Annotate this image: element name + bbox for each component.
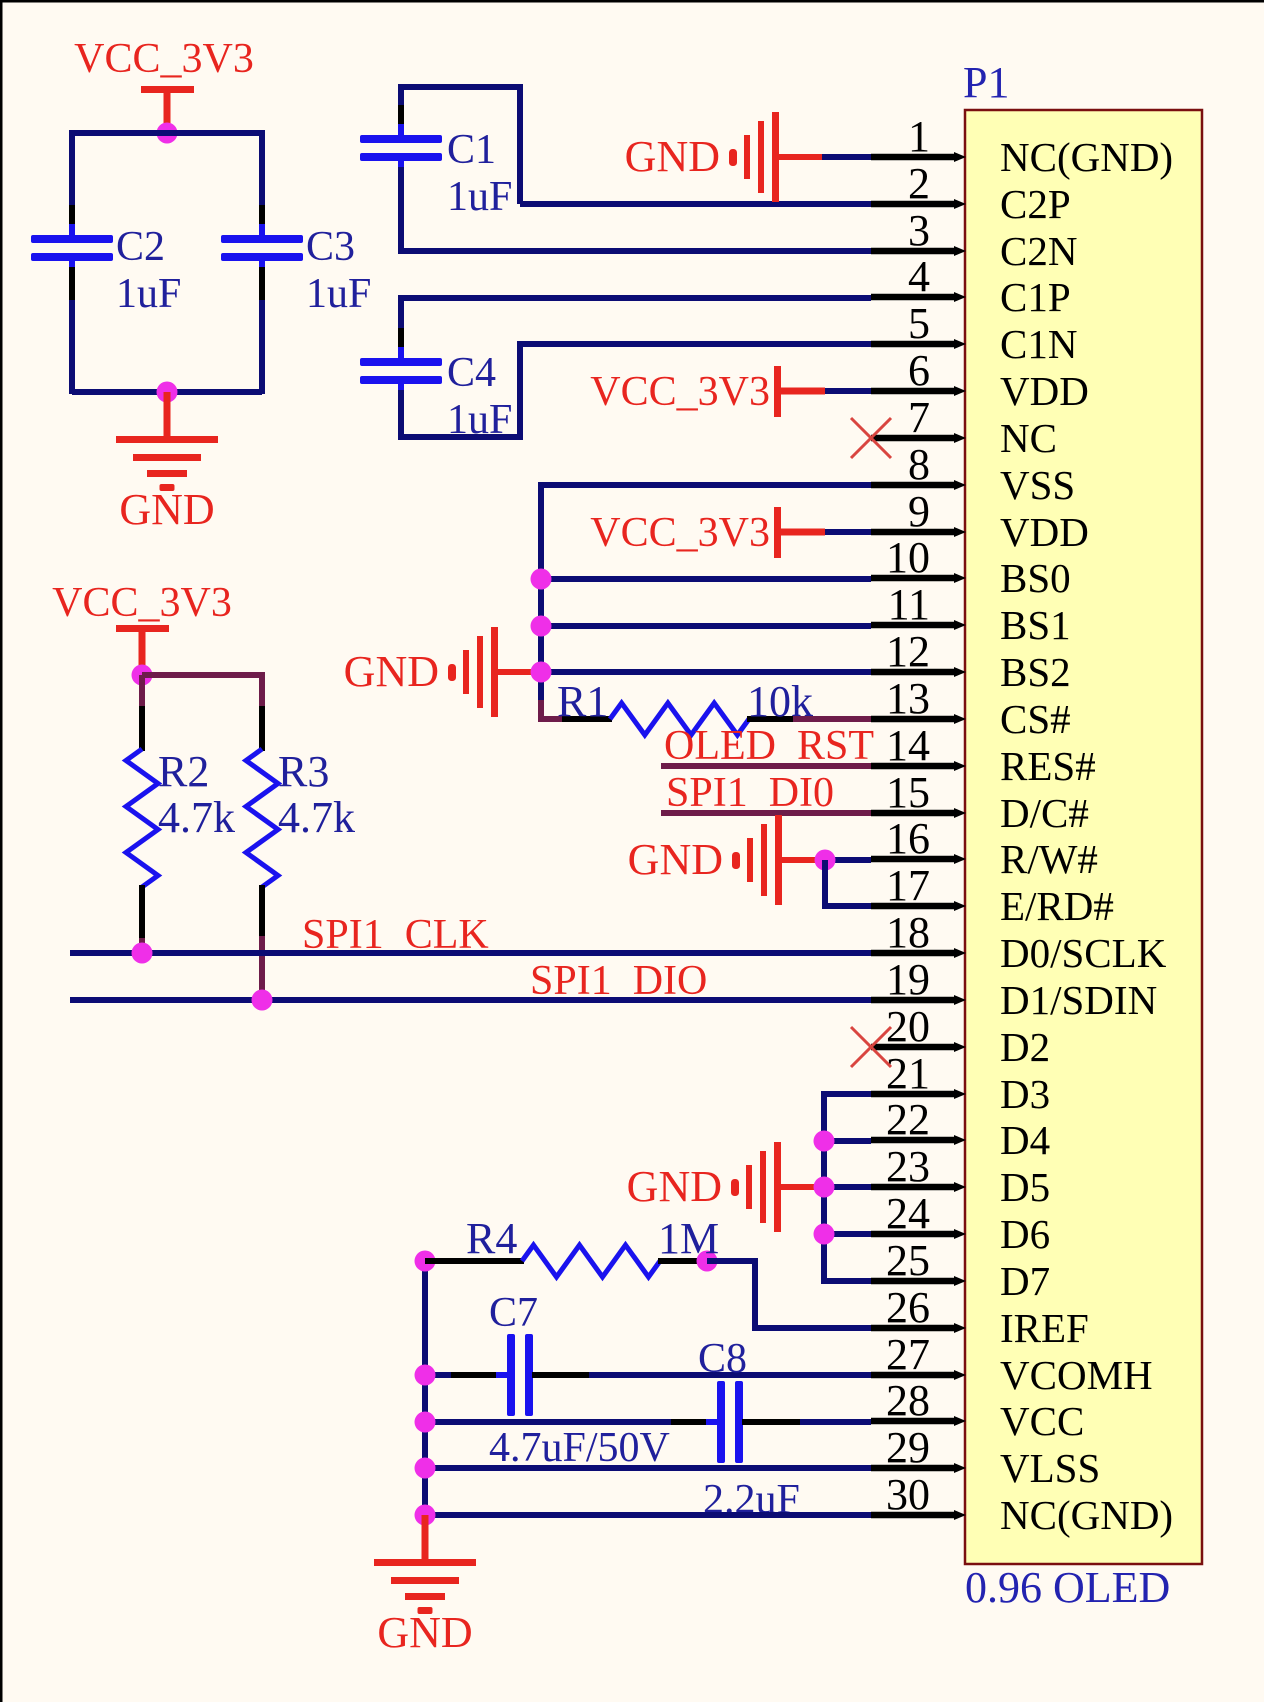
capacitor C1 lead upper: [398, 105, 404, 129]
svg-text:22: 22: [886, 1095, 930, 1144]
pin 22 stub: [871, 1135, 966, 1145]
junction R2 to SCLK: [132, 943, 153, 964]
svg-text:GND: GND: [627, 1162, 722, 1211]
resistor R1 lead left: [562, 716, 612, 722]
svg-text:IREF: IREF: [1000, 1305, 1089, 1351]
junction pin 22 bus: [814, 1131, 835, 1152]
svg-text:30: 30: [886, 1470, 930, 1519]
svg-text:C7: C7: [489, 1290, 538, 1336]
capacitor C7 lead left: [451, 1372, 508, 1378]
junction VCC to R2/R3: [132, 665, 153, 686]
pin 30 stub: [871, 1510, 966, 1520]
svg-text:18: 18: [886, 908, 930, 957]
svg-text:D3: D3: [1000, 1071, 1050, 1117]
svg-text:15: 15: [886, 768, 930, 817]
svg-text:C2N: C2N: [1000, 228, 1077, 274]
svg-text:16: 16: [886, 814, 930, 863]
svg-text:CS#: CS#: [1000, 696, 1071, 742]
pin 27 stub: [871, 1370, 966, 1380]
wire C1 top bracket: [401, 87, 520, 204]
wire pin 19 D1/SDIN: [70, 997, 871, 1003]
svg-text:NC: NC: [1000, 415, 1057, 461]
svg-text:VSS: VSS: [1000, 462, 1075, 508]
svg-text:D1/SDIN: D1/SDIN: [1000, 977, 1157, 1023]
pin 12 stub: [871, 667, 966, 677]
wire R2 top stub (maroon): [139, 675, 145, 708]
wire pin 28 VCC right: [800, 1419, 871, 1425]
pin 4 stub: [871, 292, 966, 302]
capacitor C8 body: [706, 1381, 754, 1463]
svg-text:1uF: 1uF: [447, 174, 512, 220]
resistor R1 lead right: [747, 716, 795, 722]
pin 24 stub: [871, 1229, 966, 1239]
pin 16 stub: [871, 854, 966, 864]
ground (bottom): [374, 1515, 476, 1657]
svg-text:D6: D6: [1000, 1211, 1050, 1257]
svg-text:VDD: VDD: [1000, 509, 1089, 555]
svg-text:BS0: BS0: [1000, 555, 1071, 601]
capacitor C8 lead right: [742, 1419, 802, 1425]
junction R3 to SDIN: [252, 990, 273, 1011]
wire pin 27 VCOMH right: [589, 1372, 871, 1378]
pin 19 stub: [871, 995, 966, 1005]
capacitor C3 lead lower: [259, 267, 265, 300]
resistor R4 lead left: [425, 1258, 524, 1264]
svg-text:5: 5: [908, 299, 930, 348]
svg-text:23: 23: [886, 1142, 930, 1191]
svg-text:VCC_3V3: VCC_3V3: [52, 580, 232, 626]
pin 5 stub: [871, 339, 966, 349]
wire pin 28 VCC left: [425, 1419, 673, 1425]
svg-text:10k: 10k: [747, 677, 813, 726]
svg-text:4.7k: 4.7k: [278, 793, 355, 842]
resistor R2 lead upper: [139, 706, 145, 751]
svg-text:BS2: BS2: [1000, 649, 1071, 695]
svg-text:C8: C8: [698, 1336, 747, 1382]
svg-text:VDD: VDD: [1000, 368, 1089, 414]
junction pin 28 bus: [415, 1412, 436, 1433]
pin 6 stub: [871, 386, 966, 396]
svg-text:C4: C4: [447, 350, 496, 396]
pin 17 stub: [871, 901, 966, 911]
svg-text:BS1: BS1: [1000, 602, 1071, 648]
wire pin 9 VDD: [825, 529, 871, 535]
svg-text:24: 24: [886, 1189, 930, 1238]
junction (loop bottom to GND): [157, 382, 178, 403]
resistor R3: [246, 749, 278, 887]
svg-text:R3: R3: [278, 747, 329, 796]
svg-text:OLED RST: OLED RST: [664, 723, 874, 769]
pin 1 stub: [871, 152, 966, 162]
pin 20 stub: [871, 1042, 966, 1052]
svg-text:VCOMH: VCOMH: [1000, 1352, 1153, 1398]
ground (pin 1): [625, 112, 822, 202]
svg-text:GND: GND: [628, 835, 723, 884]
sheet border top: [0, 0, 1264, 3]
svg-text:4.7k: 4.7k: [158, 793, 235, 842]
ground (pins 21-25 bus): [627, 1142, 824, 1232]
svg-text:25: 25: [886, 1236, 930, 1285]
resistor R2: [126, 749, 158, 887]
svg-text:1M: 1M: [658, 1214, 719, 1263]
no-connect X (pin 7): [851, 418, 891, 458]
svg-text:R1: R1: [557, 677, 608, 726]
wire pins 21-25 vertical bus: [824, 1094, 871, 1281]
svg-text:4: 4: [908, 252, 930, 301]
svg-text:8: 8: [908, 440, 930, 489]
svg-text:21: 21: [886, 1049, 930, 1098]
wire C1 bottom to pin 3: [401, 167, 871, 251]
svg-text:RES#: RES#: [1000, 743, 1096, 789]
junction pin 11 bus: [531, 616, 552, 637]
power VCC_3V3 (top left): [74, 36, 254, 133]
svg-text:C1P: C1P: [1000, 274, 1071, 320]
svg-text:C1: C1: [447, 127, 496, 173]
wire pin 11 BS1: [541, 623, 871, 629]
svg-text:GND: GND: [377, 1608, 472, 1657]
capacitor C4 lead upper: [398, 328, 404, 352]
junction pin 29 bus: [415, 1458, 436, 1479]
svg-text:27: 27: [886, 1330, 930, 1379]
svg-text:SPI1 DI0: SPI1 DI0: [666, 770, 834, 816]
resistor R3 lead lower: [259, 885, 265, 938]
svg-text:C3: C3: [306, 224, 355, 270]
pin 29 stub: [871, 1463, 966, 1473]
pin 18 stub: [871, 948, 966, 958]
wire pin 1 NC(GND): [822, 154, 871, 160]
svg-text:11: 11: [888, 580, 930, 629]
wire C4 bottom bracket to pin 5: [401, 344, 871, 437]
svg-text:NC(GND): NC(GND): [1000, 1492, 1173, 1538]
pin 25 stub: [871, 1276, 966, 1286]
pin 10 stub: [871, 573, 966, 583]
wire C3 right vertical lower: [259, 300, 265, 394]
svg-text:R/W#: R/W#: [1000, 836, 1098, 882]
svg-text:17: 17: [886, 861, 930, 910]
capacitor C8 lead left: [671, 1419, 718, 1425]
capacitor C7 body: [496, 1334, 544, 1416]
wire pin 10 BS0: [541, 576, 871, 582]
junction pin 12 bus: [531, 662, 552, 683]
svg-text:1uF: 1uF: [116, 271, 181, 317]
pin 8 stub: [871, 480, 966, 490]
wire pin 12 BS2: [541, 669, 871, 675]
svg-text:SPI1 DIO: SPI1 DIO: [530, 958, 707, 1004]
svg-text:26: 26: [886, 1283, 930, 1332]
svg-text:P1: P1: [963, 58, 1009, 107]
junction pin 16: [815, 850, 836, 871]
wire pin 29 VLSS: [425, 1465, 871, 1471]
svg-text:19: 19: [886, 955, 930, 1004]
svg-text:10: 10: [886, 533, 930, 582]
svg-text:1: 1: [908, 112, 930, 161]
no-connect X (pin 20): [851, 1027, 891, 1067]
wire C4 top to pin 4: [401, 298, 871, 360]
wire pin 27 VCOMH left: [425, 1372, 453, 1378]
pin 23 stub: [871, 1182, 966, 1192]
svg-text:VCC_3V3: VCC_3V3: [590, 510, 770, 556]
power VCC_3V3 (pin 9): [590, 507, 825, 558]
junction pin 24 bus: [814, 1224, 835, 1245]
junction R4 left: [415, 1251, 436, 1272]
junction pin 23 bus: [814, 1177, 835, 1198]
ground (below C2/C3): [116, 392, 218, 534]
pin 2 stub: [871, 199, 966, 209]
svg-text:GND: GND: [344, 647, 439, 696]
svg-text:0.96 OLED: 0.96 OLED: [965, 1563, 1170, 1612]
wire pin 30 NC(GND): [425, 1512, 871, 1518]
capacitor C3 lead upper: [259, 205, 265, 229]
power VCC_3V3 (pin 6): [590, 366, 825, 417]
pin 28 stub: [871, 1416, 966, 1426]
svg-text:9: 9: [908, 487, 930, 536]
wire R1 to pin 13 CS# (maroon): [793, 716, 871, 722]
wire pin 22 D4: [824, 1138, 871, 1144]
svg-text:D/C#: D/C#: [1000, 790, 1089, 836]
wire pin 18 D0/SCLK: [70, 950, 871, 956]
svg-text:20: 20: [886, 1002, 930, 1051]
resistor R1: [610, 703, 749, 735]
capacitor C7 lead right: [532, 1372, 591, 1378]
svg-text:6: 6: [908, 346, 930, 395]
capacitor C2 lead upper: [69, 205, 75, 229]
pin 26 stub: [871, 1323, 966, 1333]
svg-text:14: 14: [886, 721, 930, 770]
wire C2 left vertical lower: [69, 300, 75, 394]
resistor R2 lead lower: [139, 885, 145, 940]
wire C2/C3 loop top: [72, 130, 262, 136]
svg-text:GND: GND: [625, 132, 720, 181]
power VCC_3V3 (R2/R3): [52, 580, 232, 675]
svg-text:28: 28: [886, 1376, 930, 1425]
junction pin 30 bus: [415, 1505, 436, 1526]
resistor R3 lead upper: [259, 706, 265, 751]
svg-text:7: 7: [908, 393, 930, 442]
wire pin 15 D/C# (maroon): [661, 810, 871, 816]
svg-text:D0/SCLK: D0/SCLK: [1000, 930, 1167, 976]
pin 9 stub: [871, 527, 966, 537]
svg-text:VCC_3V3: VCC_3V3: [590, 369, 770, 415]
svg-text:VCC: VCC: [1000, 1398, 1084, 1444]
svg-text:D7: D7: [1000, 1258, 1050, 1304]
svg-text:VCC_3V3: VCC_3V3: [74, 36, 254, 82]
wire pin 23 D5: [824, 1184, 871, 1190]
wire C2/C3 loop bottom: [72, 389, 262, 395]
svg-text:C1N: C1N: [1000, 321, 1077, 367]
wire R4 to pin 26 IREF: [707, 1261, 871, 1328]
svg-text:GND: GND: [119, 485, 214, 534]
svg-text:NC(GND): NC(GND): [1000, 134, 1173, 180]
resistor R4: [522, 1245, 660, 1277]
svg-text:1uF: 1uF: [306, 271, 371, 317]
svg-text:13: 13: [886, 674, 930, 723]
ground (pins 10-12 bus): [344, 627, 541, 717]
svg-text:C2P: C2P: [1000, 181, 1071, 227]
wire pin 14 RES# (maroon): [661, 763, 871, 769]
wire C2 left vertical upper: [69, 130, 75, 205]
pin 14 stub: [871, 761, 966, 771]
wire C3 right vertical upper: [259, 130, 265, 205]
wire R2/R3 top (maroon): [142, 675, 262, 708]
pin 13 stub: [871, 714, 966, 724]
wire pin 17 E/RD#: [825, 860, 871, 906]
resistor R4 lead right: [658, 1258, 707, 1264]
svg-text:4.7uF/50V: 4.7uF/50V: [489, 1425, 670, 1471]
wire pin 16 R/W#: [825, 857, 871, 863]
pin 21 stub: [871, 1089, 966, 1099]
svg-text:C2: C2: [116, 224, 165, 270]
capacitor C3 body: [221, 224, 303, 272]
svg-text:SPI1 CLK: SPI1 CLK: [302, 912, 489, 958]
sheet border left: [0, 0, 3, 1702]
capacitor C2 lead lower: [69, 267, 75, 300]
svg-text:VLSS: VLSS: [1000, 1445, 1100, 1491]
capacitor C1 body: [360, 124, 442, 172]
wire left vertical bus (C7/C8/GND): [422, 1261, 428, 1518]
junction R4 right: [697, 1251, 718, 1272]
svg-text:D4: D4: [1000, 1117, 1050, 1163]
pin 15 stub: [871, 808, 966, 818]
svg-text:29: 29: [886, 1423, 930, 1472]
capacitor C1 lead lower: [398, 167, 404, 200]
junction pin 27 bus: [415, 1365, 436, 1386]
ground (pins 16-17): [628, 815, 825, 905]
wire R3 bottom (maroon): [259, 936, 265, 1000]
svg-text:R2: R2: [158, 747, 209, 796]
wire bus corner to R1 (maroon): [541, 700, 565, 719]
svg-text:E/RD#: E/RD#: [1000, 883, 1114, 929]
svg-text:R4: R4: [466, 1214, 517, 1263]
capacitor C2 body: [31, 224, 113, 272]
wire pin 8 VSS vertical bus: [541, 485, 871, 719]
wire pin 24 D6: [824, 1231, 871, 1237]
capacitor C4 body: [360, 347, 442, 395]
connector P1 body: [965, 110, 1202, 1564]
junction (VCC to C2/C3 loop): [157, 123, 178, 144]
svg-text:D5: D5: [1000, 1164, 1050, 1210]
svg-text:12: 12: [886, 627, 930, 676]
svg-text:2: 2: [908, 159, 930, 208]
pin 11 stub: [871, 620, 966, 630]
junction pin 10 bus: [531, 569, 552, 590]
pin 7 stub: [871, 433, 966, 443]
svg-text:3: 3: [908, 206, 930, 255]
wire R2 bottom (maroon): [139, 938, 145, 953]
pin 3 stub: [871, 246, 966, 256]
wire pin 2 C2P: [520, 201, 871, 207]
capacitor C4 lead lower: [398, 390, 404, 423]
wire pin 6 VDD: [825, 388, 871, 394]
svg-text:D2: D2: [1000, 1024, 1050, 1070]
